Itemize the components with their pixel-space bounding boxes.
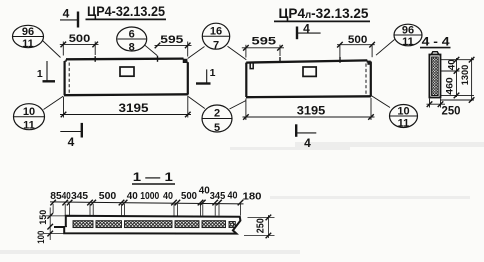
lifting tick 3 xyxy=(279,57,281,63)
dimension 250 (4-4) xyxy=(427,99,446,108)
svg-text:595: 595 xyxy=(252,36,277,48)
balloon 2/5 xyxy=(202,105,232,132)
leader to panel corner xyxy=(43,41,61,58)
svg-text:96: 96 xyxy=(22,26,34,38)
balloon 96/11 top-left xyxy=(13,25,44,47)
leader 10/11 xyxy=(44,96,64,110)
svg-text:40: 40 xyxy=(228,190,238,202)
svg-text:11: 11 xyxy=(402,36,414,48)
balloon 6/8 xyxy=(117,27,147,51)
right panel outline xyxy=(246,60,371,97)
svg-text:7: 7 xyxy=(213,40,219,52)
dimension 3195 left xyxy=(60,96,191,118)
leader 96/11 right xyxy=(376,40,395,56)
svg-text:85: 85 xyxy=(50,190,62,202)
svg-text:4: 4 xyxy=(68,135,75,149)
svg-text:4: 4 xyxy=(63,7,70,21)
left vertical dims 150/100 xyxy=(44,208,67,241)
svg-text:2: 2 xyxy=(214,108,220,120)
lifting point tick 1 xyxy=(94,56,96,62)
right vertical dim 250 (1-1) xyxy=(244,215,275,238)
hatched key block 4 xyxy=(175,221,199,228)
right panel corner notch block xyxy=(367,61,370,65)
svg-text:4: 4 xyxy=(303,22,310,36)
dimension 3195 right xyxy=(243,98,375,120)
section marker 4 top-right xyxy=(296,27,298,40)
balloon 10/11 bottom-left xyxy=(14,104,45,130)
svg-text:ЦР4-32.13.25: ЦР4-32.13.25 xyxy=(87,3,165,19)
svg-text:1: 1 xyxy=(210,67,216,79)
svg-text:10: 10 xyxy=(23,106,35,118)
section 1-1 profile outline xyxy=(54,216,240,234)
svg-text:96: 96 xyxy=(402,24,414,36)
svg-text:11: 11 xyxy=(22,38,34,50)
svg-text:5: 5 xyxy=(214,122,220,134)
svg-text:180: 180 xyxy=(243,191,262,203)
svg-text:4: 4 xyxy=(304,136,311,150)
right panel dashed edge line xyxy=(365,64,367,96)
section 4-4 inner hatched core xyxy=(432,57,439,96)
svg-text:1 — 1: 1 — 1 xyxy=(133,170,173,184)
section marker 4 bottom-left xyxy=(60,131,82,133)
left panel corner notch block xyxy=(184,59,188,63)
balloon 16/7 xyxy=(202,23,229,49)
right panel hole xyxy=(303,67,316,76)
svg-text:150: 150 xyxy=(38,210,49,225)
svg-text:500: 500 xyxy=(99,190,117,202)
svg-text:40: 40 xyxy=(199,185,210,197)
svg-text:8: 8 xyxy=(129,42,135,54)
svg-text:3195: 3195 xyxy=(119,101,149,115)
svg-text:3195: 3195 xyxy=(297,104,326,118)
svg-text:345: 345 xyxy=(71,190,88,202)
lifting point tick 2 xyxy=(157,56,159,62)
svg-text:16: 16 xyxy=(210,26,222,38)
hatched key block 6 end xyxy=(229,222,235,228)
section marker 1 right xyxy=(196,82,211,84)
leader 10/11 right xyxy=(372,96,391,108)
left panel outline xyxy=(64,59,188,96)
extension verticals xyxy=(53,204,240,216)
svg-text:500: 500 xyxy=(69,33,91,45)
hatched key block 2 xyxy=(96,221,122,228)
svg-text:40: 40 xyxy=(127,190,138,202)
lifting tick 4 xyxy=(339,57,341,63)
leader 2/5 left xyxy=(188,97,205,109)
svg-text:40: 40 xyxy=(62,190,71,202)
svg-text:40: 40 xyxy=(447,59,458,70)
leader 6/8 xyxy=(145,45,158,55)
leader 2/5 right xyxy=(230,101,247,110)
svg-text:ЦР4л-32.13.25: ЦР4л-32.13.25 xyxy=(279,5,369,21)
svg-text:1000: 1000 xyxy=(140,190,159,202)
svg-text:1: 1 xyxy=(37,68,43,80)
left panel dashed edge line xyxy=(68,63,70,95)
svg-text:250: 250 xyxy=(442,106,461,118)
balloon 10/11 bottom-right xyxy=(390,105,418,128)
balloon 96/11 top-right xyxy=(394,24,422,46)
dimension 595 right xyxy=(242,45,284,58)
svg-text:10: 10 xyxy=(397,105,409,117)
leader 16/7 right xyxy=(228,46,247,60)
svg-text:460: 460 xyxy=(445,77,456,95)
section 4-4 top key trapezoid xyxy=(431,52,439,55)
svg-text:500: 500 xyxy=(348,34,368,46)
hatched key block 5 xyxy=(202,221,226,228)
leader 16/7 left xyxy=(188,47,205,59)
svg-text:1300: 1300 xyxy=(460,65,471,86)
svg-text:4 - 4: 4 - 4 xyxy=(422,34,450,48)
section marker 4 bottom-right xyxy=(295,124,297,137)
dimension 40/460 (4-4) xyxy=(441,58,474,97)
svg-text:40: 40 xyxy=(163,190,173,202)
svg-text:11: 11 xyxy=(23,120,35,132)
svg-text:6: 6 xyxy=(129,29,135,41)
svg-text:100: 100 xyxy=(36,231,47,244)
scan noise streaks xyxy=(0,142,484,254)
svg-text:11: 11 xyxy=(398,118,410,130)
hatched key block 1 xyxy=(73,221,93,228)
section 4-4 outer profile xyxy=(429,55,440,98)
tick slashes on top dim line xyxy=(50,200,243,206)
dimension 1300 (4-4) xyxy=(441,58,474,102)
svg-text:345: 345 xyxy=(210,190,226,202)
svg-text:250: 250 xyxy=(256,218,267,233)
svg-text:500: 500 xyxy=(181,190,197,202)
svg-text:595: 595 xyxy=(160,34,183,46)
left panel hole xyxy=(120,67,134,76)
section 1-1 top dimension line xyxy=(50,202,244,204)
dimension 500 right xyxy=(337,45,375,58)
dimension 500 left xyxy=(60,42,99,56)
hatched key block 3 xyxy=(125,221,173,228)
dimension 595 left xyxy=(155,42,192,57)
